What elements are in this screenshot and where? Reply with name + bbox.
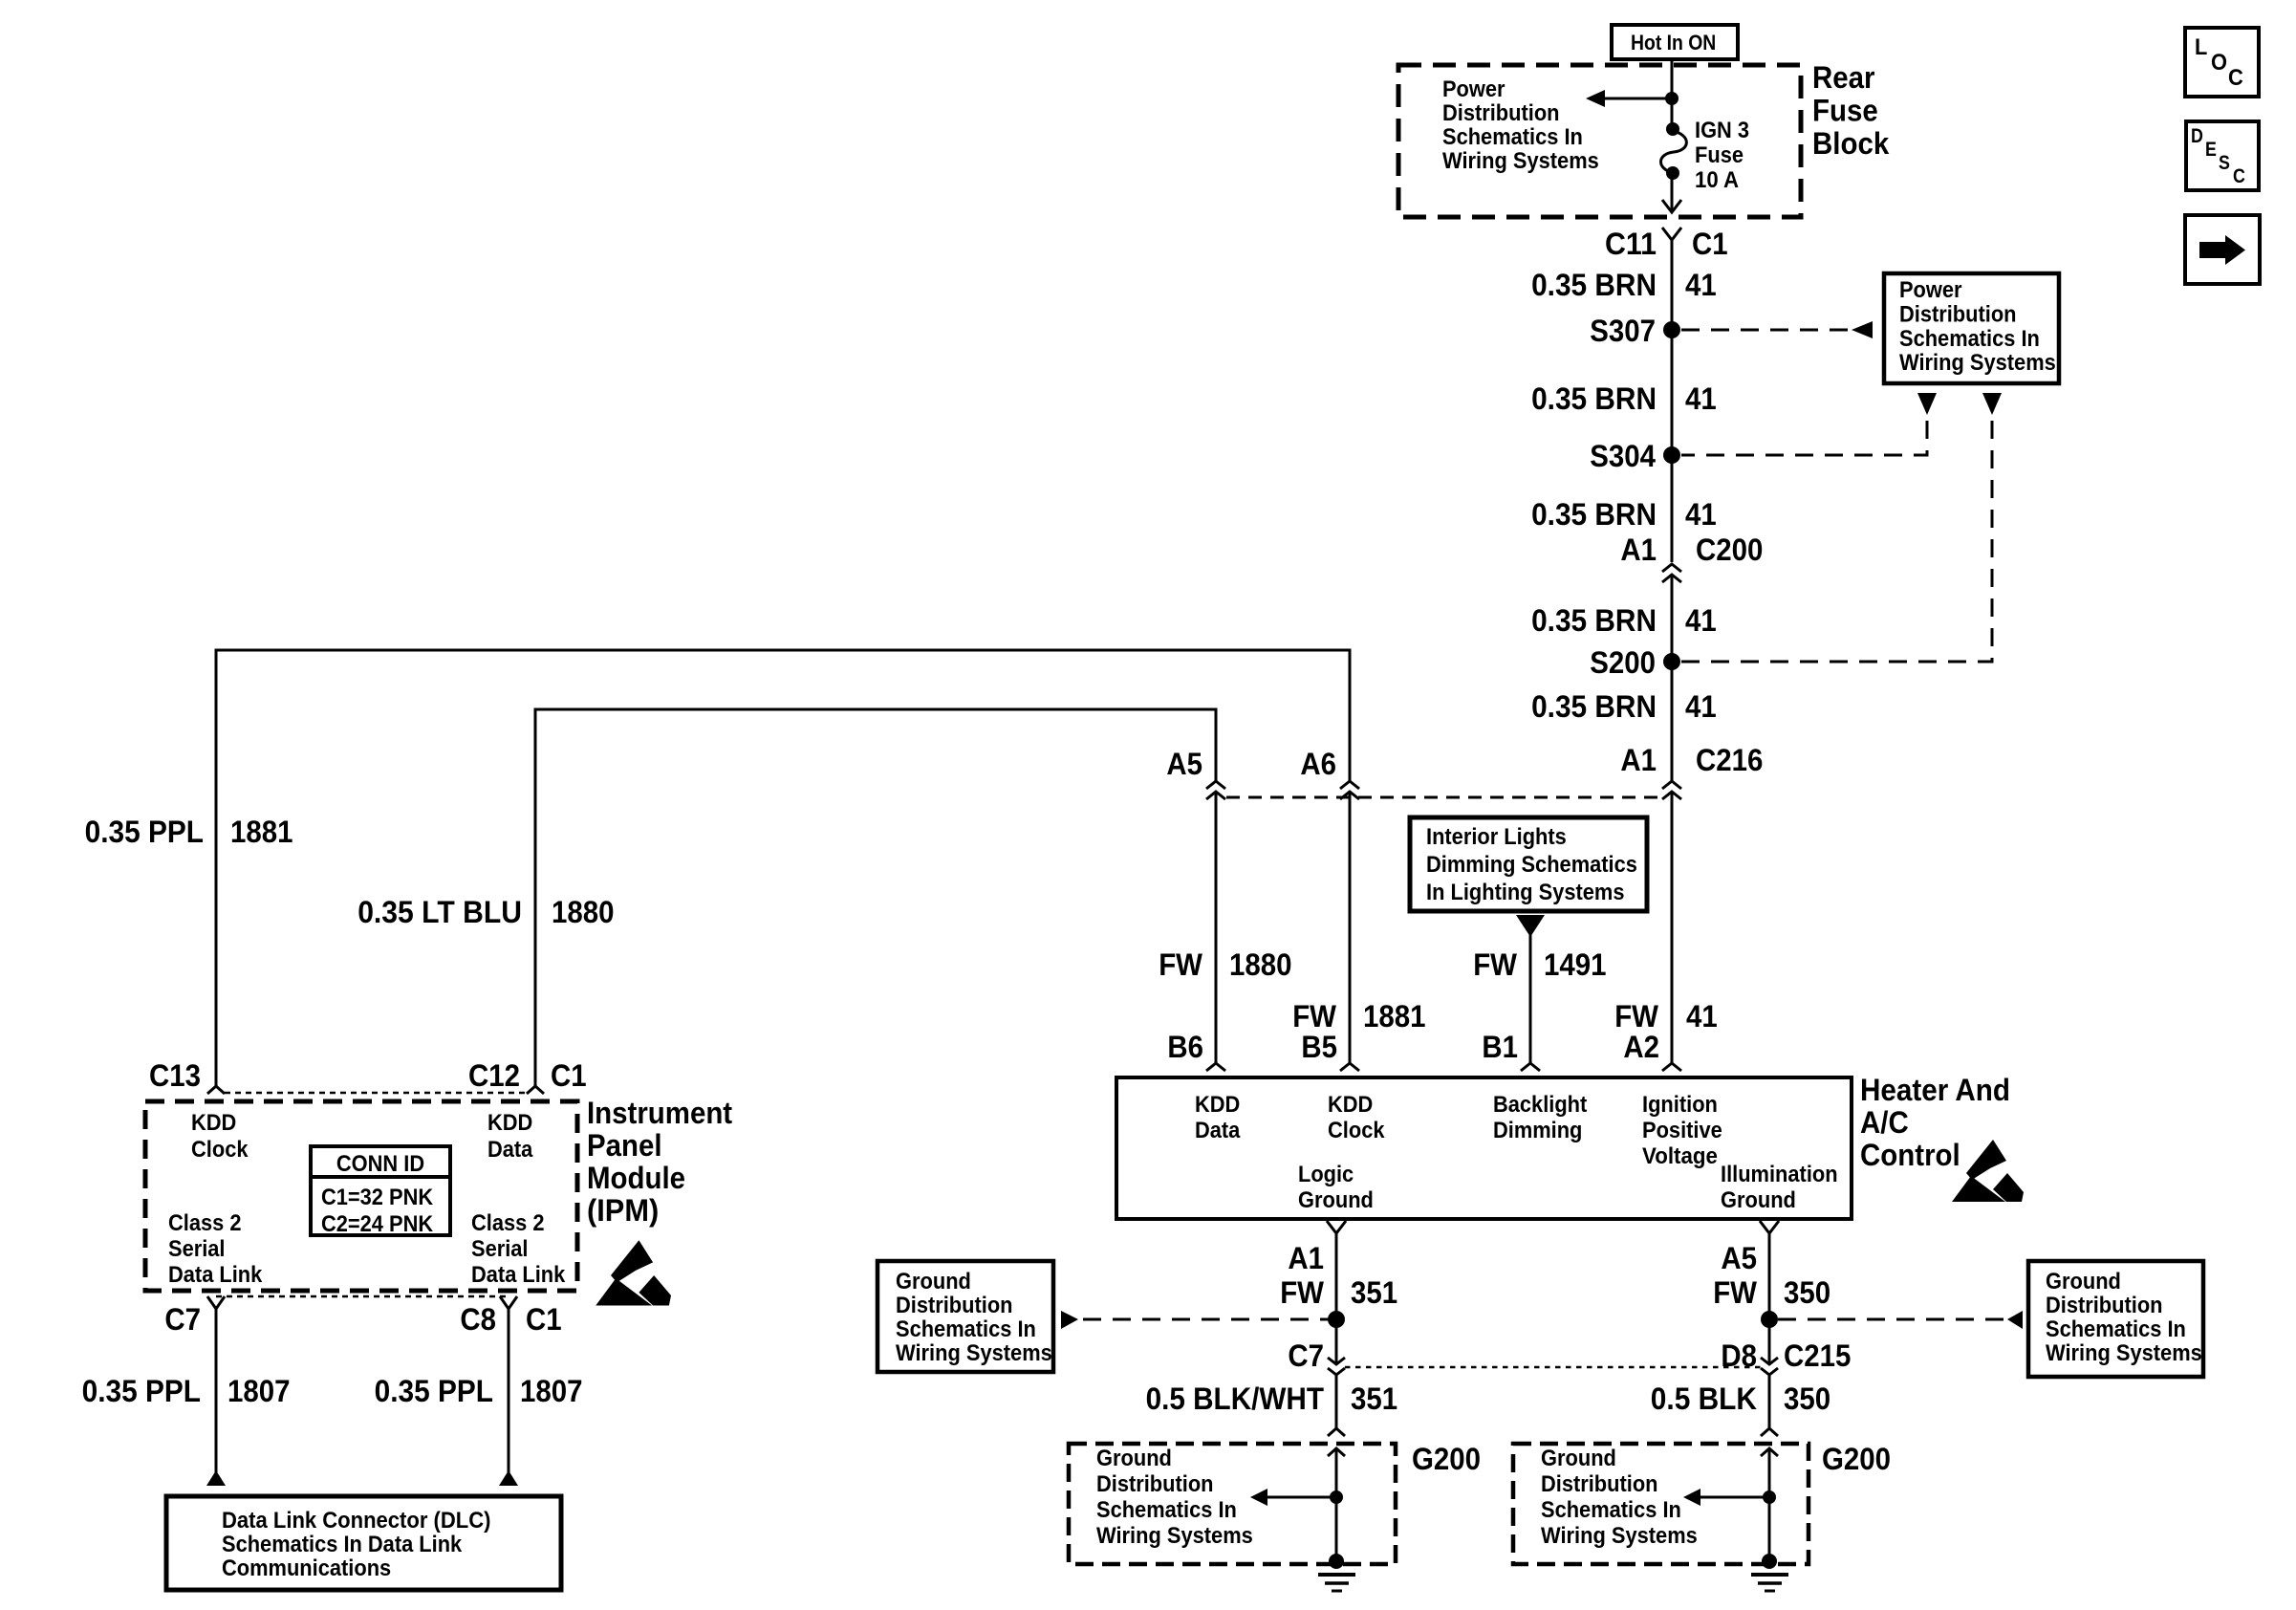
svg-text:Ground: Ground [2046, 1269, 2121, 1295]
svg-text:IGN 3: IGN 3 [1695, 118, 1749, 143]
pin B6 chevron [1206, 1063, 1225, 1071]
svg-text:C2=24 PNK: C2=24 PNK [321, 1211, 434, 1237]
svg-text:KDD: KDD [1328, 1092, 1373, 1118]
svg-text:C215: C215 [1784, 1338, 1851, 1373]
pin A2 chevron into heater box [1662, 1063, 1681, 1071]
svg-text:Wiring Systems: Wiring Systems [2046, 1340, 2202, 1366]
svg-text:A1: A1 [1620, 743, 1657, 777]
svg-text:In Lighting Systems: In Lighting Systems [1426, 880, 1625, 905]
wire: 0.5 BLK 350 [1768, 1375, 1771, 1428]
svg-text:C200: C200 [1696, 533, 1763, 567]
svg-text:FW: FW [1713, 1275, 1758, 1310]
arrowhead: ground ref (right) [1683, 1489, 1700, 1506]
svg-text:A5: A5 [1721, 1241, 1757, 1275]
svg-text:1881: 1881 [230, 815, 293, 849]
svg-text:Backlight: Backlight [1493, 1092, 1587, 1118]
svg-text:C11: C11 [1605, 227, 1657, 261]
ESD symbol (heater and a/c control) [1952, 1140, 2024, 1202]
svg-text:Fuse: Fuse [1695, 142, 1744, 168]
node: junction on 351 [1328, 1311, 1345, 1328]
svg-text:0.35 LT BLU: 0.35 LT BLU [357, 895, 522, 929]
svg-text:B1: B1 [1482, 1030, 1518, 1064]
box: Hot In ON header [1612, 25, 1738, 59]
pin A1 cup below heater box [1327, 1221, 1346, 1233]
svg-text:Class 2: Class 2 [471, 1210, 545, 1236]
svg-text:C216: C216 [1696, 743, 1763, 777]
svg-text:350: 350 [1784, 1382, 1830, 1416]
icon box: LOC [2185, 28, 2259, 97]
wire: ground lead inside G200 (left) [1335, 1448, 1338, 1561]
svg-text:Distribution: Distribution [896, 1293, 1013, 1318]
svg-text:Voltage: Voltage [1642, 1143, 1718, 1169]
svg-text:41: 41 [1685, 689, 1717, 724]
box: Ground Distribution Schematics In Wiring Systems (left) [877, 1261, 1053, 1372]
node: junction on 350 [1761, 1311, 1778, 1328]
svg-text:Logic: Logic [1298, 1162, 1354, 1187]
svg-text:Data: Data [487, 1137, 533, 1163]
wire: 0.35 PPL 1807 (C7 to DLC) [215, 1309, 218, 1473]
component box: Heater And A/C Control [1116, 1077, 1852, 1219]
svg-text:Wiring Systems: Wiring Systems [896, 1340, 1052, 1366]
connector chevron above G200 box (right) [1761, 1428, 1778, 1436]
svg-text:G200: G200 [1412, 1442, 1481, 1476]
wire: tap to left arrow [1603, 98, 1672, 100]
wire: 0.35 PPL 1881 run (C13 to A6) [216, 650, 1350, 1086]
arrowhead: DLC ref (left) [206, 1470, 226, 1486]
connector D8 in-line [1761, 1358, 1778, 1364]
svg-text:Ground: Ground [896, 1269, 971, 1295]
fine dashed: C7-C8 connector line [216, 1295, 509, 1298]
svg-text:Wiring Systems: Wiring Systems [1442, 148, 1599, 174]
wire: to ground ref arrow (right) [1700, 1496, 1769, 1499]
wire: 0.35 BRN 41 segment 1 [1671, 240, 1674, 330]
wire: fuse output [1671, 173, 1674, 210]
svg-text:Control: Control [1860, 1138, 1960, 1172]
wire: FW 1491 to B1 [1529, 935, 1532, 1063]
svg-text:Interior Lights: Interior Lights [1426, 824, 1567, 850]
svg-text:E: E [2205, 139, 2217, 161]
CONN ID table box [311, 1146, 450, 1235]
svg-text:0.35 BRN: 0.35 BRN [1531, 603, 1657, 638]
svg-text:B5: B5 [1301, 1030, 1337, 1064]
svg-text:Hot In ON: Hot In ON [1631, 31, 1716, 54]
svg-text:G200: G200 [1822, 1442, 1891, 1476]
svg-text:CONN ID: CONN ID [336, 1151, 424, 1177]
G200 dashed box (left) [1069, 1444, 1396, 1564]
svg-text:C1: C1 [1692, 227, 1728, 261]
ESD symbol (IPM) [596, 1240, 671, 1305]
wire: FW 41 down to A2 pin [1671, 792, 1674, 1063]
box: Power Distribution Schematics In Wiring Systems (right) [1884, 273, 2059, 383]
svg-text:Heater And: Heater And [1860, 1073, 2010, 1107]
ground symbol G200 (left) [1329, 1554, 1344, 1569]
svg-text:10 A: 10 A [1695, 167, 1739, 193]
svg-text:0.35 PPL: 0.35 PPL [375, 1374, 493, 1408]
node: splice S304 [1663, 446, 1680, 464]
arrowhead: right ground ref [2007, 1311, 2023, 1329]
pin C13 chevron at IPM top [207, 1086, 225, 1094]
wire: 0.35 BRN 41 segment 4 [1671, 575, 1674, 662]
svg-text:0.35 PPL: 0.35 PPL [85, 815, 204, 849]
svg-text:41: 41 [1685, 268, 1717, 302]
svg-text:FW: FW [1280, 1275, 1325, 1310]
svg-text:Schematics In: Schematics In [1899, 326, 2040, 352]
svg-text:1881: 1881 [1363, 999, 1426, 1033]
connector A5 in-line [1206, 781, 1225, 789]
wire: to ground ref arrow (left) [1267, 1496, 1336, 1499]
svg-text:1491: 1491 [1544, 947, 1607, 982]
wire: FW 351 [1335, 1233, 1338, 1364]
svg-text:A2: A2 [1623, 1030, 1659, 1064]
svg-text:Ground: Ground [1721, 1187, 1796, 1213]
arrowhead: ref drop 1 below power dist box [1917, 393, 1937, 415]
connector chevron below G200 top edge (left) [1328, 1448, 1345, 1456]
svg-text:Serial: Serial [471, 1236, 529, 1262]
svg-text:S200: S200 [1590, 645, 1656, 680]
svg-text:Positive: Positive [1642, 1118, 1722, 1143]
svg-text:Schematics In: Schematics In [896, 1316, 1036, 1342]
svg-text:Rear: Rear [1812, 60, 1874, 95]
wire: 0.5 BLK/WHT 351 [1335, 1375, 1338, 1428]
ground symbol G200 (right) [1762, 1554, 1777, 1569]
connector A6 in-line [1340, 781, 1359, 789]
svg-text:Data: Data [1195, 1118, 1241, 1143]
dashed ref: S307 to power distribution box [1681, 329, 1849, 332]
svg-text:Ground: Ground [1298, 1187, 1374, 1213]
svg-text:C1: C1 [526, 1302, 562, 1337]
fuse F IGN3 element (S-curve) [1661, 131, 1687, 173]
svg-text:(IPM): (IPM) [587, 1193, 659, 1228]
node: splice S200 [1663, 653, 1680, 670]
svg-text:Communications: Communications [222, 1556, 391, 1581]
svg-text:Distribution: Distribution [1541, 1471, 1658, 1497]
pin C12 chevron at IPM top [527, 1086, 544, 1094]
svg-text:Dimming Schematics: Dimming Schematics [1426, 852, 1637, 878]
svg-text:C12: C12 [468, 1058, 520, 1093]
node: junction in G200 (right) [1763, 1490, 1776, 1504]
svg-text:Schematics In: Schematics In [2046, 1316, 2186, 1342]
G200 dashed box (right) [1513, 1444, 1809, 1564]
svg-text:Distribution: Distribution [1096, 1471, 1214, 1497]
svg-text:A5: A5 [1166, 747, 1202, 781]
dashed ref: junction to right ground box [1778, 1318, 2004, 1321]
svg-text:O: O [2211, 50, 2227, 76]
svg-text:Power: Power [1442, 76, 1505, 102]
pin B1 chevron [1521, 1063, 1540, 1071]
svg-text:Class 2: Class 2 [168, 1210, 242, 1236]
svg-text:1880: 1880 [1229, 947, 1292, 982]
dashed ref: connector C216/A5/A6 tie line [1226, 796, 1662, 799]
dashed ref: drop 2 elbow to S200 [1681, 421, 1992, 662]
wire: 0.35 PPL 1807 (C8 to DLC) [508, 1309, 510, 1473]
svg-text:FW: FW [1473, 947, 1518, 982]
svg-text:0.5 BLK/WHT: 0.5 BLK/WHT [1146, 1382, 1325, 1416]
connector C1 cup at fuse block output [1662, 228, 1681, 240]
svg-text:Schematics In Data Link: Schematics In Data Link [222, 1532, 463, 1557]
svg-text:Data Link Connector (DLC): Data Link Connector (DLC) [222, 1508, 491, 1534]
svg-text:C1: C1 [551, 1058, 587, 1093]
svg-text:L: L [2195, 34, 2207, 60]
svg-text:1807: 1807 [520, 1374, 583, 1408]
svg-text:0.35 BRN: 0.35 BRN [1531, 268, 1657, 302]
pin C7 cup below IPM [207, 1296, 225, 1309]
svg-text:KDD: KDD [487, 1110, 532, 1136]
connector chevron below G200 top edge (right) [1761, 1448, 1778, 1456]
svg-text:A/C: A/C [1860, 1105, 1909, 1140]
svg-text:S307: S307 [1590, 314, 1656, 348]
svg-text:S: S [2219, 152, 2230, 174]
svg-text:Power: Power [1899, 277, 1962, 303]
svg-text:Illumination: Illumination [1721, 1162, 1838, 1187]
svg-text:Clock: Clock [1328, 1118, 1385, 1143]
svg-text:Fuse: Fuse [1812, 94, 1878, 128]
pin C8 cup below IPM [500, 1296, 517, 1309]
svg-text:Schematics In: Schematics In [1096, 1497, 1237, 1523]
node: tap junction in fuse block [1665, 92, 1679, 105]
svg-text:351: 351 [1351, 1275, 1397, 1310]
icon box: DESC [2186, 121, 2259, 190]
fuse F IGN3 top terminal [1666, 122, 1679, 136]
svg-text:C7: C7 [1288, 1338, 1324, 1373]
svg-text:41: 41 [1685, 497, 1717, 532]
svg-text:KDD: KDD [1195, 1092, 1240, 1118]
svg-text:Wiring Systems: Wiring Systems [1541, 1523, 1698, 1549]
svg-text:0.35 PPL: 0.35 PPL [82, 1374, 201, 1408]
svg-text:C: C [2233, 165, 2245, 187]
svg-text:C8: C8 [460, 1302, 496, 1337]
svg-text:351: 351 [1351, 1382, 1397, 1416]
svg-text:A1: A1 [1288, 1241, 1324, 1275]
svg-text:41: 41 [1685, 603, 1717, 638]
svg-text:C7: C7 [164, 1302, 201, 1337]
wire: FW 1881 to B5 [1349, 792, 1352, 1063]
svg-text:FW: FW [1292, 999, 1337, 1033]
svg-text:B6: B6 [1167, 1030, 1203, 1064]
wire: 0.35 BRN 41 segment 5 [1671, 662, 1674, 781]
wire: 0.35 BRN 41 segment 2 [1671, 330, 1674, 455]
svg-text:0.5 BLK: 0.5 BLK [1651, 1382, 1757, 1416]
component box: Instrument Panel Module (IPM) dashed outline [145, 1101, 577, 1291]
svg-text:C: C [2228, 65, 2243, 91]
svg-text:Data Link: Data Link [168, 1262, 263, 1288]
icon box: forward arrow [2185, 215, 2260, 284]
svg-text:A1: A1 [1620, 533, 1657, 567]
svg-text:D: D [2191, 125, 2203, 147]
connector C200 in-line [1662, 564, 1681, 572]
box: Data Link Connector (DLC) Schematics In Data Link Communications [166, 1496, 561, 1590]
fine dashed: C7-D8 connector line [1345, 1366, 1762, 1369]
svg-text:Data Link: Data Link [471, 1262, 566, 1288]
svg-text:D8: D8 [1721, 1338, 1757, 1373]
box: Interior Lights Dimming Schematics In Lighting Systems [1410, 817, 1647, 911]
arrowhead: S307 ref into box [1852, 321, 1873, 338]
svg-text:350: 350 [1784, 1275, 1830, 1310]
wire: Hot In ON feed into fuse block [1671, 57, 1674, 130]
svg-text:Module: Module [587, 1161, 685, 1195]
connector C7 in-line [1328, 1358, 1345, 1364]
svg-text:Block: Block [1812, 126, 1889, 161]
svg-text:Ignition: Ignition [1642, 1092, 1718, 1118]
svg-text:41: 41 [1686, 999, 1718, 1033]
svg-text:Distribution: Distribution [1442, 100, 1560, 126]
pin B5 chevron [1340, 1063, 1359, 1071]
svg-text:C1=32 PNK: C1=32 PNK [321, 1185, 434, 1210]
wire: FW 350 [1768, 1233, 1771, 1364]
arrowhead: from interior lights box down [1516, 915, 1545, 937]
arrowhead (open) leaving fuse block [1662, 200, 1681, 212]
arrowhead: ground ref (left) [1250, 1489, 1267, 1506]
pin A5 cup below heater box [1760, 1221, 1779, 1233]
svg-text:Panel: Panel [587, 1128, 662, 1163]
svg-text:1880: 1880 [552, 895, 615, 929]
svg-text:FW: FW [1159, 947, 1203, 982]
node: junction in G200 (left) [1330, 1490, 1343, 1504]
svg-text:FW: FW [1614, 999, 1659, 1033]
dashed ref: left ground box to junction [1083, 1318, 1329, 1321]
arrowhead: left ground ref [1061, 1311, 1078, 1329]
svg-text:C13: C13 [149, 1058, 201, 1093]
fine dashed: C13-C12 connector line [225, 1092, 527, 1095]
svg-text:Ground: Ground [1541, 1446, 1616, 1471]
svg-text:Wiring Systems: Wiring Systems [1899, 350, 2056, 376]
svg-text:1807: 1807 [227, 1374, 291, 1408]
svg-text:Distribution: Distribution [1899, 301, 2017, 327]
wire: FW 1880 to B6 [1215, 792, 1218, 1063]
arrowhead: DLC ref (right) [499, 1470, 518, 1486]
wire: ground lead inside G200 (right) [1768, 1448, 1771, 1561]
wire: 0.35 LT BLU 1880 run (C12 to A5) [535, 709, 1216, 1086]
arrowhead: to power distribution schematics [1586, 90, 1605, 107]
svg-text:KDD: KDD [191, 1110, 236, 1136]
svg-text:0.35 BRN: 0.35 BRN [1531, 497, 1657, 532]
node: splice S307 [1663, 321, 1680, 338]
svg-text:S304: S304 [1590, 439, 1656, 473]
svg-text:Schematics In: Schematics In [1442, 124, 1583, 150]
svg-text:Instrument: Instrument [587, 1096, 732, 1130]
wire: 0.35 BRN 41 segment 3 [1671, 455, 1674, 562]
connector C216 in-line [1662, 781, 1681, 789]
rear fuse block dashed outline [1398, 65, 1801, 217]
svg-text:0.35 BRN: 0.35 BRN [1531, 381, 1657, 416]
arrowhead: ref drop 2 below power dist box [1982, 393, 2002, 415]
connector chevron above G200 box (left) [1328, 1428, 1345, 1436]
svg-text:Distribution: Distribution [2046, 1293, 2163, 1318]
dashed ref: drop 1 elbow to S304 [1681, 421, 1927, 455]
svg-text:Clock: Clock [191, 1137, 249, 1163]
box: Ground Distribution Schematics In Wiring Systems (right) [2028, 1261, 2203, 1377]
svg-text:A6: A6 [1300, 747, 1336, 781]
svg-text:Serial: Serial [168, 1236, 226, 1262]
svg-text:0.35 BRN: 0.35 BRN [1531, 689, 1657, 724]
svg-text:Wiring Systems: Wiring Systems [1096, 1523, 1253, 1549]
svg-text:Ground: Ground [1096, 1446, 1172, 1471]
svg-text:Dimming: Dimming [1493, 1118, 1582, 1143]
svg-text:41: 41 [1685, 381, 1717, 416]
fuse F IGN3 bottom terminal [1666, 166, 1679, 180]
svg-text:Schematics In: Schematics In [1541, 1497, 1681, 1523]
